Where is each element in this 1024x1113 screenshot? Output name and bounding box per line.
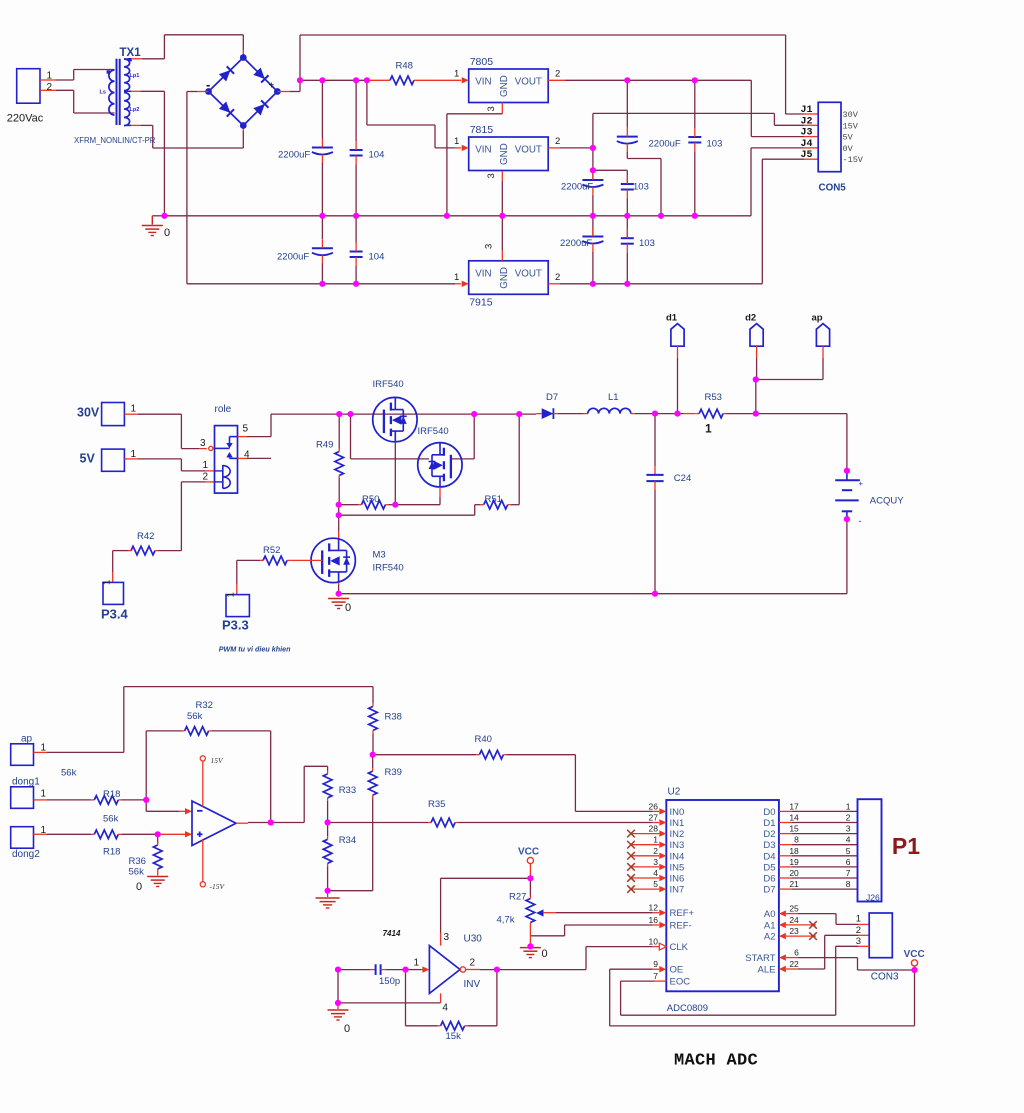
svg-text:0: 0 — [345, 602, 351, 614]
svg-text:1: 1 — [454, 69, 459, 80]
svg-text:role: role — [215, 404, 232, 415]
svg-text:A0: A0 — [764, 909, 776, 920]
svg-text:D0: D0 — [763, 807, 775, 818]
svg-text:18: 18 — [789, 846, 799, 856]
svg-text:15k: 15k — [446, 1031, 462, 1042]
svg-text:VCC: VCC — [904, 949, 925, 960]
svg-text:2: 2 — [470, 958, 476, 969]
svg-text:+: + — [269, 81, 275, 92]
svg-text:5V: 5V — [80, 452, 96, 466]
svg-text:PWM tu vi dieu khien: PWM tu vi dieu khien — [219, 645, 291, 654]
svg-text:3: 3 — [444, 932, 450, 943]
svg-text:2: 2 — [856, 925, 861, 936]
svg-text:220Vac: 220Vac — [7, 113, 44, 125]
svg-text:0: 0 — [136, 881, 142, 893]
svg-text:4: 4 — [442, 1003, 448, 1014]
svg-text:ACQUY: ACQUY — [870, 496, 904, 507]
svg-text:10: 10 — [649, 937, 659, 947]
svg-text:5: 5 — [846, 846, 851, 856]
svg-text:3: 3 — [486, 173, 497, 178]
svg-text:J5: J5 — [800, 150, 812, 161]
svg-text:Ls: Ls — [100, 90, 106, 96]
svg-text:R51: R51 — [485, 494, 502, 505]
svg-text:5: 5 — [243, 424, 249, 435]
svg-text:IN7: IN7 — [670, 885, 685, 896]
svg-text:VOUT: VOUT — [515, 268, 542, 279]
svg-text:0: 0 — [164, 227, 170, 239]
svg-text:dong2: dong2 — [12, 849, 40, 860]
svg-text:1: 1 — [454, 272, 459, 283]
svg-text:R18: R18 — [103, 789, 120, 800]
svg-text:R32: R32 — [196, 700, 213, 711]
svg-text:R53: R53 — [705, 392, 722, 403]
svg-text:P3.4: P3.4 — [101, 607, 129, 622]
svg-text:7915: 7915 — [469, 296, 493, 308]
svg-text:30V: 30V — [77, 406, 100, 420]
svg-text:7414: 7414 — [383, 929, 401, 938]
svg-text:IN2: IN2 — [670, 829, 685, 840]
svg-text:1: 1 — [203, 460, 209, 471]
svg-text:56k: 56k — [129, 867, 145, 878]
svg-text:VOUT: VOUT — [515, 145, 542, 156]
svg-text:104: 104 — [369, 252, 385, 263]
svg-text:CON5: CON5 — [819, 183, 847, 194]
svg-text:R50: R50 — [362, 494, 379, 505]
svg-text:103: 103 — [707, 139, 723, 150]
svg-text:1: 1 — [454, 136, 459, 147]
svg-text:R42: R42 — [137, 531, 154, 542]
svg-text:2: 2 — [555, 69, 560, 80]
svg-text:8: 8 — [846, 879, 851, 889]
svg-text:VIN: VIN — [475, 77, 491, 88]
svg-text:5: 5 — [653, 879, 658, 889]
svg-text:IN3: IN3 — [670, 840, 685, 851]
svg-text:IN1: IN1 — [670, 818, 685, 829]
svg-text:R33: R33 — [339, 785, 356, 796]
svg-text:GND: GND — [499, 267, 510, 289]
svg-text:Lp2: Lp2 — [130, 107, 140, 113]
svg-text:IRF540: IRF540 — [373, 379, 404, 390]
svg-text:4: 4 — [846, 835, 851, 845]
svg-text:28: 28 — [649, 824, 659, 834]
svg-text:Lp1: Lp1 — [130, 73, 140, 79]
svg-text:D4: D4 — [763, 851, 775, 862]
svg-text:5V: 5V — [843, 133, 854, 143]
svg-text:ap: ap — [21, 734, 33, 745]
svg-text:1: 1 — [131, 404, 137, 415]
svg-text:7805: 7805 — [470, 56, 494, 68]
svg-text:3: 3 — [846, 824, 851, 834]
svg-text:103: 103 — [633, 182, 649, 193]
svg-text:15V: 15V — [211, 756, 225, 765]
svg-text:19: 19 — [789, 857, 799, 867]
svg-text:6: 6 — [794, 948, 799, 958]
svg-text:3: 3 — [856, 936, 861, 947]
svg-text:15: 15 — [789, 824, 799, 834]
svg-text:R36: R36 — [129, 856, 146, 867]
svg-text:R52: R52 — [263, 545, 280, 556]
svg-text:IN4: IN4 — [670, 851, 685, 862]
svg-text:2: 2 — [653, 846, 658, 856]
svg-text:2: 2 — [555, 136, 560, 147]
svg-text:22: 22 — [789, 959, 799, 969]
svg-text:REF-: REF- — [670, 921, 692, 932]
svg-text:24: 24 — [789, 915, 799, 925]
svg-text:1: 1 — [705, 422, 712, 436]
svg-text:R40: R40 — [475, 734, 492, 745]
svg-text:-15V: -15V — [210, 882, 226, 891]
svg-text:1: 1 — [47, 71, 53, 82]
svg-text:C24: C24 — [674, 473, 691, 484]
svg-text:TX1: TX1 — [120, 47, 142, 59]
svg-text:dong1: dong1 — [12, 777, 40, 788]
svg-text:1: 1 — [846, 801, 851, 811]
svg-text:R34: R34 — [339, 835, 356, 846]
svg-text:2200uF: 2200uF — [278, 150, 310, 161]
svg-text:J26: J26 — [866, 893, 880, 903]
svg-text:ap: ap — [812, 313, 823, 324]
svg-text:M3: M3 — [373, 550, 386, 561]
svg-text:2200uF: 2200uF — [561, 182, 593, 193]
svg-text:15V: 15V — [843, 121, 859, 131]
svg-text:3: 3 — [484, 244, 495, 249]
svg-text:4,7k: 4,7k — [497, 915, 515, 926]
svg-text:3: 3 — [486, 106, 497, 111]
svg-text:56k: 56k — [187, 711, 203, 722]
svg-text:27: 27 — [649, 813, 659, 823]
svg-text:14: 14 — [789, 813, 799, 823]
svg-text:A1: A1 — [764, 920, 776, 931]
svg-text:D1: D1 — [763, 818, 775, 829]
svg-text:XFRM_NONLIN/CT-PR: XFRM_NONLIN/CT-PR — [74, 136, 156, 145]
svg-text:3: 3 — [200, 438, 206, 449]
svg-text:d2: d2 — [745, 313, 756, 324]
svg-text:IRF540: IRF540 — [418, 426, 449, 437]
svg-text:L1: L1 — [608, 392, 619, 403]
svg-text:3: 3 — [653, 857, 658, 867]
svg-text:1: 1 — [41, 789, 47, 800]
svg-text:MACH ADC: MACH ADC — [674, 1052, 758, 1071]
svg-text:12: 12 — [649, 903, 659, 913]
svg-text:VCC: VCC — [518, 847, 539, 858]
svg-text:EOC: EOC — [670, 977, 691, 988]
svg-text:D6: D6 — [763, 874, 775, 885]
svg-text:CLK: CLK — [670, 942, 689, 953]
svg-text:2: 2 — [555, 272, 560, 283]
svg-text:21: 21 — [789, 879, 799, 889]
svg-text:2200uF: 2200uF — [277, 252, 309, 263]
svg-text:-: - — [206, 77, 210, 92]
svg-text:20: 20 — [789, 868, 799, 878]
svg-text:1: 1 — [226, 592, 237, 597]
svg-text:23: 23 — [789, 926, 799, 936]
svg-text:0V: 0V — [843, 144, 854, 154]
svg-text:150p: 150p — [379, 976, 400, 987]
svg-text:J4: J4 — [800, 139, 812, 150]
svg-text:104: 104 — [369, 150, 385, 161]
svg-text:ALE: ALE — [758, 965, 776, 976]
svg-text:U2: U2 — [668, 787, 681, 798]
svg-text:7: 7 — [653, 971, 658, 981]
svg-text:0: 0 — [344, 1023, 350, 1035]
svg-text:6: 6 — [846, 857, 851, 867]
svg-text:2: 2 — [203, 472, 209, 483]
svg-text:1: 1 — [856, 914, 861, 925]
svg-text:7815: 7815 — [470, 124, 494, 136]
svg-text:2200uF: 2200uF — [649, 139, 681, 150]
svg-text:0: 0 — [542, 948, 548, 960]
svg-text:2: 2 — [47, 82, 53, 93]
svg-text:J1: J1 — [800, 105, 812, 116]
svg-text:1: 1 — [102, 580, 113, 585]
svg-text:17: 17 — [789, 801, 799, 811]
svg-text:R49: R49 — [316, 440, 333, 451]
svg-text:D7: D7 — [546, 392, 558, 403]
svg-text:2: 2 — [846, 813, 851, 823]
svg-text:CON3: CON3 — [871, 972, 899, 983]
svg-text:R18: R18 — [103, 847, 120, 858]
svg-text:VIN: VIN — [475, 145, 491, 156]
svg-text:INV: INV — [464, 979, 481, 990]
svg-text:D7: D7 — [763, 885, 775, 896]
svg-text:VOUT: VOUT — [515, 77, 542, 88]
svg-text:56k: 56k — [61, 768, 77, 779]
svg-text:4: 4 — [653, 868, 658, 878]
svg-text:+: + — [859, 479, 864, 488]
svg-text:D2: D2 — [763, 829, 775, 840]
svg-text:7: 7 — [846, 868, 851, 878]
svg-text:IN6: IN6 — [670, 874, 685, 885]
svg-text:-15V: -15V — [843, 155, 864, 165]
svg-text:9: 9 — [653, 959, 658, 969]
svg-text:1: 1 — [653, 835, 658, 845]
svg-text:REF+: REF+ — [670, 908, 695, 919]
svg-text:30V: 30V — [843, 110, 859, 120]
svg-text:d1: d1 — [666, 313, 678, 324]
svg-text:R48: R48 — [396, 61, 413, 72]
svg-text:26: 26 — [649, 801, 659, 811]
svg-text:IRF540: IRF540 — [373, 563, 404, 574]
svg-text:2200uF: 2200uF — [560, 238, 592, 249]
svg-text:D5: D5 — [763, 862, 775, 873]
svg-text:GND: GND — [499, 75, 510, 97]
svg-text:R39: R39 — [385, 767, 402, 778]
svg-text:IN0: IN0 — [670, 807, 685, 818]
svg-text:P1: P1 — [892, 833, 920, 859]
svg-text:16: 16 — [649, 915, 659, 925]
svg-text:U30: U30 — [464, 934, 483, 945]
svg-text:ADC0809: ADC0809 — [667, 1003, 708, 1014]
svg-text:IN5: IN5 — [670, 862, 685, 873]
svg-text:VIN: VIN — [475, 268, 491, 279]
svg-text:J3: J3 — [800, 128, 812, 139]
svg-text:P3.3: P3.3 — [222, 618, 249, 633]
svg-text:56k: 56k — [103, 814, 119, 825]
svg-text:START: START — [745, 953, 775, 964]
svg-text:R35: R35 — [428, 799, 445, 810]
svg-text:-: - — [859, 516, 862, 526]
svg-text:103: 103 — [639, 238, 655, 249]
svg-text:GND: GND — [499, 143, 510, 165]
svg-text:25: 25 — [789, 904, 799, 914]
svg-text:OE: OE — [670, 965, 684, 976]
svg-text:D3: D3 — [763, 840, 775, 851]
svg-text:8: 8 — [794, 835, 799, 845]
svg-text:R27: R27 — [509, 892, 526, 903]
svg-text:1: 1 — [414, 958, 420, 969]
svg-text:R38: R38 — [385, 712, 402, 723]
svg-text:A2: A2 — [764, 932, 776, 943]
svg-text:J2: J2 — [800, 116, 812, 127]
